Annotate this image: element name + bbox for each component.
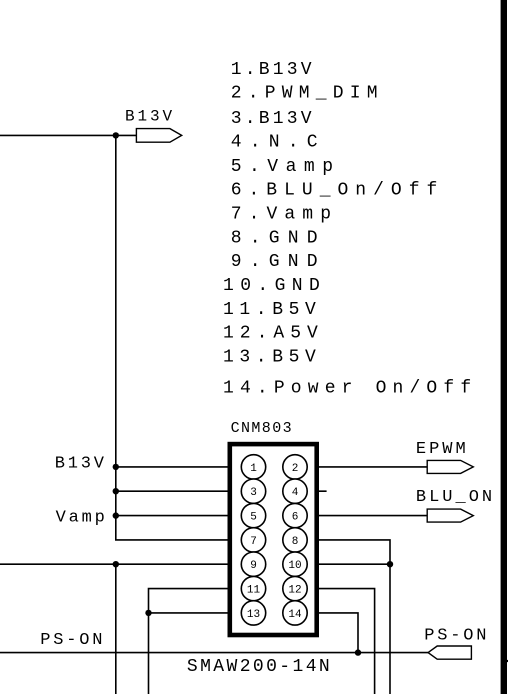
svg-text:13.B5V: 13.B5V	[223, 347, 321, 367]
svg-text:5.Vamp: 5.Vamp	[231, 157, 341, 177]
svg-text:SMAW200-14N: SMAW200-14N	[187, 657, 332, 677]
junction PS-ON / pin 14 branch	[355, 649, 361, 655]
wire PS-ON bottom rail	[0, 652, 428, 654]
junction pin 13 branch	[145, 610, 151, 616]
junction at B13V bus top	[113, 132, 119, 138]
svg-text:BLU_ON: BLU_ON	[416, 488, 495, 507]
wire to pin 1	[116, 466, 242, 468]
svg-text:4: 4	[292, 487, 299, 499]
wire pin 4 stub	[307, 490, 327, 492]
svg-text:10: 10	[288, 560, 301, 572]
svg-text:PS-ON: PS-ON	[40, 631, 105, 650]
wire B13V horizontal feed (top left)	[0, 134, 136, 136]
svg-text:6.BLU_On/Off: 6.BLU_On/Off	[231, 181, 445, 201]
pin 3	[241, 479, 265, 503]
junction pin 8 / pin 10	[387, 561, 393, 567]
svg-text:3.B13V: 3.B13V	[231, 109, 315, 129]
svg-text:EPWM: EPWM	[416, 440, 469, 459]
net flag BLU_ON	[427, 509, 473, 522]
pin 1	[241, 455, 265, 479]
svg-text:13: 13	[247, 609, 260, 621]
svg-text:3: 3	[250, 487, 257, 499]
wire pin 8 with corner down to pin 10 rail	[307, 540, 390, 564]
net flag B13V (output arrow, top)	[136, 129, 181, 143]
pin 13	[241, 601, 265, 625]
wire B13V vertical bus with corner to pin 7	[116, 135, 242, 540]
wire pin 11 with corner and drop to sheet bottom	[149, 589, 242, 694]
wire drop from pin 10 junction to sheet bottom	[389, 564, 391, 694]
pin 14	[283, 601, 307, 625]
svg-text:Vamp: Vamp	[56, 509, 108, 528]
wire pin 12 with corner and drop to sheet bottom	[307, 589, 375, 694]
pin 9	[241, 552, 265, 576]
svg-text:PS-ON: PS-ON	[424, 627, 489, 646]
svg-text:B13V: B13V	[55, 455, 107, 474]
svg-text:7: 7	[250, 536, 257, 548]
svg-text:B13V: B13V	[125, 108, 175, 126]
junction pin 3	[113, 488, 119, 494]
svg-text:10.GND: 10.GND	[223, 276, 326, 296]
pin 12	[283, 576, 307, 600]
svg-text:2: 2	[292, 463, 299, 475]
pin 4	[283, 479, 307, 503]
wire pin 14 with corner down to PS-ON rail	[307, 613, 358, 653]
wire to pin 13	[149, 612, 242, 614]
wire to pin 5	[116, 515, 242, 517]
svg-text:1.B13V: 1.B13V	[231, 60, 315, 80]
svg-text:4.N.C: 4.N.C	[231, 133, 326, 153]
svg-text:6: 6	[292, 512, 299, 524]
sheet border bar (right)	[501, 0, 507, 694]
wire pin 2 to EPWM flag	[307, 466, 427, 468]
svg-text:2.PWM_DIM: 2.PWM_DIM	[231, 84, 384, 104]
pin 2	[283, 455, 307, 479]
svg-text:11.B5V: 11.B5V	[223, 300, 321, 320]
pin 8	[283, 528, 307, 552]
junction pin 9 branch	[113, 561, 119, 567]
pin 10	[283, 552, 307, 576]
pin 7	[241, 528, 265, 552]
wire pin 10	[307, 563, 390, 565]
pin 11	[241, 576, 265, 600]
svg-text:9: 9	[250, 560, 257, 572]
wire to pin 3	[116, 490, 242, 492]
net flag EPWM	[427, 460, 473, 473]
svg-text:1: 1	[250, 463, 257, 475]
svg-text:12: 12	[288, 585, 301, 597]
svg-text:9.GND: 9.GND	[231, 252, 326, 272]
pin 6	[283, 503, 307, 527]
svg-text:12.A5V: 12.A5V	[223, 324, 324, 344]
connector CNM803 body	[230, 444, 317, 635]
svg-text:14: 14	[288, 609, 302, 621]
pin 5	[241, 503, 265, 527]
svg-text:8: 8	[292, 536, 299, 548]
svg-text:7.Vamp: 7.Vamp	[231, 205, 338, 225]
wire pin 6 to BLU_ON flag	[307, 515, 427, 517]
svg-text:14.Power On/Off: 14.Power On/Off	[223, 379, 477, 399]
wire drop from pin 9 junction to sheet bottom	[115, 564, 117, 694]
svg-text:CNM803: CNM803	[231, 420, 293, 437]
svg-text:11: 11	[247, 585, 261, 597]
sheet border tick	[506, 660, 508, 662]
junction pin 1	[113, 464, 119, 470]
net flag PS-ON (input arrow, points left)	[428, 646, 471, 659]
junction pin 5	[113, 512, 119, 518]
wire left feed to pin 9	[0, 563, 242, 565]
svg-text:5: 5	[250, 512, 257, 524]
svg-text:8.GND: 8.GND	[231, 228, 326, 248]
